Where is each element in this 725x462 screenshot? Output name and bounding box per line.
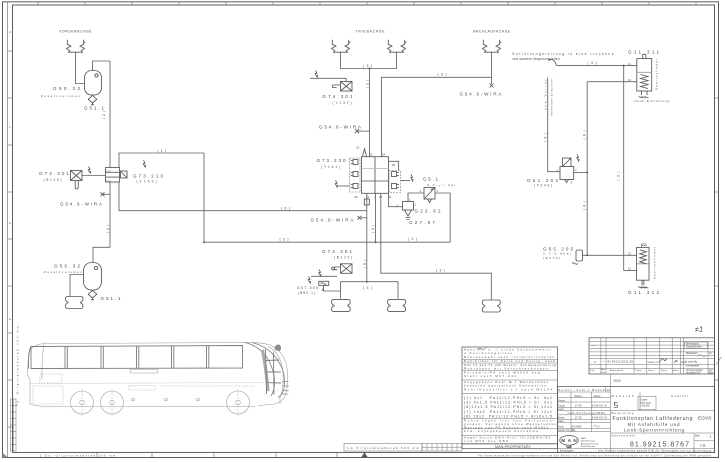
svg-text:Gewicht: Gewicht <box>671 394 688 398</box>
svg-text:≠1: ≠1 <box>695 324 704 334</box>
svg-text:Sperrzylinder: Sperrzylinder <box>653 247 657 279</box>
svg-text:mech.Entlüftung: mech.Entlüftung <box>634 99 669 103</box>
air bellows drive axle bottom right <box>388 300 406 312</box>
svg-text:1 B.: 1 B. <box>700 444 706 448</box>
lightning right of block <box>411 175 413 182</box>
vent stub under G74.301 <box>75 181 78 190</box>
svg-text:Nutzfahrzeuge: Nutzfahrzeuge <box>581 440 596 443</box>
svg-text:MAN-PROPRIETARY: MAN-PROPRIETARY <box>495 445 532 449</box>
solenoid lightning G74.301 left <box>88 167 90 174</box>
svg-text:—: — <box>602 360 605 364</box>
mirror <box>275 344 282 351</box>
svg-text:CAD-Zeichnung/AMWL: CAD-Zeichnung/AMWL <box>568 411 607 415</box>
svg-text:Urheberrechtlich: Urheberrechtlich <box>686 369 704 372</box>
svg-text:Sperrzylinder: Sperrzylinder <box>655 59 659 90</box>
svg-text:G54.6-WIRA: G54.6-WIRA <box>460 91 503 96</box>
svg-text:u.Zuordnungsliste: u.Zuordnungsliste <box>464 351 512 355</box>
bottom scale bar cells <box>422 443 462 451</box>
left zone ticks <box>8 51 13 427</box>
wire reservoir to main line <box>93 61 111 71</box>
wire port32 to G22.62 <box>389 193 403 206</box>
windshield A-pillar curve <box>244 342 285 397</box>
air bellows drive axle right <box>388 40 407 52</box>
svg-text:24: 24 <box>382 153 386 157</box>
svg-text:A3: A3 <box>607 388 611 392</box>
air bellows drive axle left <box>332 40 351 52</box>
svg-text:Blatt: Blatt <box>709 371 714 374</box>
test point G54.6-WIRA centre <box>361 217 367 219</box>
svg-text:17.05: 17.05 <box>575 416 582 420</box>
svg-text:bzw. angegebenem Ausnahme: bzw. angegebenem Ausnahme <box>464 429 538 433</box>
vent curl <box>549 58 557 66</box>
svg-text:81.99215.8767: 81.99215.8767 <box>630 441 689 448</box>
svg-text:beschützt DIN: beschützt DIN <box>686 371 701 374</box>
air bellows drive axle bottom left <box>332 300 351 312</box>
solenoid valve G61.202 <box>560 158 574 180</box>
supply line vom Vorrat <box>548 78 560 172</box>
axle centre marks <box>82 389 238 416</box>
bottom left corner arrow <box>3 453 9 458</box>
svg-text:Anz.: Anz. <box>601 368 606 371</box>
pipe (3) to port 11 G11.312 <box>624 270 637 272</box>
svg-text:Gesch.: Gesch. <box>558 399 566 402</box>
test point G54.6-WIRA trailing <box>491 77 493 84</box>
signature scribbles <box>661 358 668 361</box>
svg-text:MAN: MAN <box>581 437 586 440</box>
lock cylinder G11.312 <box>637 244 650 280</box>
svg-text:Fehl: Fehl <box>601 372 606 374</box>
handwritten squiggle over border <box>716 357 722 365</box>
svg-text:Werk München: Werk München <box>581 445 596 448</box>
switch body <box>576 250 583 261</box>
front door shaded band <box>263 350 269 391</box>
svg-text:12: 12 <box>628 251 632 255</box>
svg-text:Aktiengesellschaft: Aktiengesellschaft <box>581 442 599 445</box>
wire G5.1 port1 down to (3) <box>435 193 450 242</box>
svg-text:Zust.: Zust. <box>590 369 595 372</box>
(3) manifold horizontal <box>204 241 450 243</box>
svg-text:-----: ----- <box>592 344 596 347</box>
svg-text:n.M3226: n.M3226 <box>640 405 650 408</box>
svg-text:5: 5 <box>614 400 619 410</box>
left margin ruler <box>11 399 17 451</box>
spring G11.312 <box>640 250 647 264</box>
wire (6) vertical <box>586 82 588 256</box>
wire port2 to (6) <box>574 172 588 174</box>
coil 5 <box>392 184 400 189</box>
pipe (6) to port 12 <box>587 81 637 83</box>
bus front windshield and nose <box>258 345 288 406</box>
svg-text:25: 25 <box>392 163 396 167</box>
svg-text:Blattanzahl: Blattanzahl <box>686 352 698 355</box>
notes box <box>462 347 558 444</box>
svg-text:Änderungs-Nr.: Änderungs-Nr. <box>610 369 624 372</box>
wire bellows to reservoir <box>76 52 85 83</box>
MAN logo <box>560 436 579 446</box>
wire main vertical (2) upper <box>109 61 111 167</box>
skirt dashed line <box>30 383 283 384</box>
vent under G5.1 <box>428 199 432 203</box>
door hinges <box>282 382 289 395</box>
drain valve under reservoir <box>88 95 97 104</box>
wire G74.301 to G73.210 <box>82 175 106 177</box>
bus rear edge <box>42 344 44 380</box>
svg-text:31: 31 <box>356 146 360 150</box>
svg-text:Sachnummer: Sachnummer <box>612 434 636 438</box>
solenoid lightning G73.210 <box>143 161 145 168</box>
revision entry row <box>594 360 661 365</box>
pipe (3) to trailing axle <box>382 52 492 157</box>
svg-text:Vorgeschrieben: Vorgeschrieben <box>686 346 703 349</box>
svg-text:26: 26 <box>355 195 359 199</box>
lightning G74.301 centre <box>319 270 321 277</box>
reservoir G50.32 (front) <box>85 71 102 96</box>
pipe (3) to lock cylinder G11.311 <box>557 65 637 67</box>
svg-text:Zusatzvolumen: Zusatzvolumen <box>41 94 80 98</box>
wire (3) vertical right <box>623 66 625 271</box>
zone letters left <box>9 30 11 321</box>
revision header row <box>590 368 679 374</box>
stub under G11.312 <box>638 280 648 288</box>
vent port 3 G61.202 <box>565 180 569 183</box>
air bellows front axle bottom <box>66 297 84 309</box>
svg-text:G51.1: G51.1 <box>101 296 121 301</box>
svg-text:Datum: Datum <box>636 369 642 372</box>
coil 2 <box>351 172 359 177</box>
bus roof and body outline <box>28 344 256 407</box>
pressure switch G57.300 <box>308 277 310 284</box>
air bellows trailing axle <box>483 40 502 52</box>
svg-text:Tu. Originalmaßstab 100 mm: Tu. Originalmaßstab 100 mm <box>16 325 20 406</box>
svg-text:Mit Anfahrhilfe und: Mit Anfahrhilfe und <box>628 422 680 427</box>
svg-text:Anz.: Anz. <box>709 369 714 372</box>
svg-text:Name: Name <box>594 394 601 398</box>
svg-text:Berichtigung: Berichtigung <box>686 343 699 346</box>
svg-text:VORDERACHSE: VORDERACHSE <box>59 30 92 34</box>
svg-text:11: 11 <box>628 267 631 271</box>
svg-text:Gattrich: Gattrich <box>648 360 661 364</box>
wire port21 down <box>366 193 368 281</box>
vent G27.67 <box>405 210 412 220</box>
svg-text:Zeichn.-Aufb.n.M3226: Zeichn.-Aufb.n.M3226 <box>559 388 605 392</box>
svg-text:Erstausgabe: Erstausgabe <box>560 450 574 453</box>
svg-text:(7) 14x2 PA11/12-PHL5 = St 12: (7) 14x2 PA11/12-PHL5 = St 12x1 <box>464 410 552 414</box>
main title block frame <box>558 387 715 453</box>
svg-text:(B60.1): (B60.1) <box>298 291 315 295</box>
test point G54.6-WIRA drive axle <box>357 130 370 132</box>
valve G73.210 <box>106 168 128 183</box>
svg-text:Lugd.: Lugd. <box>558 408 564 411</box>
svg-text:11: 11 <box>628 62 631 66</box>
pipe G73.210 top (1) <box>119 153 204 168</box>
overflow valve G5.1 <box>424 188 435 200</box>
svg-text:EGVS: EGVS <box>698 416 712 422</box>
svg-text:17.05: 17.05 <box>575 404 582 408</box>
valve G74.301 left <box>71 171 83 181</box>
wire G22.62 to G5.1 <box>408 193 424 202</box>
notes text <box>464 348 556 392</box>
lock cylinder G11.311 <box>637 55 652 91</box>
MAN-PROPRIETARY strip <box>462 444 558 449</box>
wire vertical x204 <box>203 153 205 242</box>
svg-text:Entlüftungsleitung in eine tro: Entlüftungsleitung in eine trockene <box>513 52 614 56</box>
wheel front <box>227 391 250 414</box>
air bellows trailing axle bottom <box>482 300 500 312</box>
wheel rear 1 <box>71 391 94 414</box>
svg-text:1 Du. Originalmaßstab 100 mm: 1 Du. Originalmaßstab 100 mm <box>40 453 115 457</box>
svg-text:Datum: Datum <box>661 369 667 372</box>
front door frame <box>266 349 281 395</box>
svg-text:(6)12x1,5 PA11/12-PHL5 = St 12: (6)12x1,5 PA11/12-PHL5 = St 12x1 <box>464 405 552 409</box>
air bellows front axle top <box>67 40 86 52</box>
svg-text:12: 12 <box>628 78 632 82</box>
wires bellows to manifold <box>341 52 397 68</box>
svg-text:Zusatzvolumen: Zusatzvolumen <box>44 270 82 274</box>
wire reservoir to bellows lower <box>70 275 84 297</box>
left solenoid group dashed box <box>350 158 361 192</box>
luggage door dashes <box>33 374 254 404</box>
coil 3 <box>351 184 359 189</box>
coil 1 <box>351 160 359 165</box>
wheel rear 2 <box>101 391 124 414</box>
svg-text:KUBISCH: KUBISCH <box>592 404 607 408</box>
valve G22.62 <box>403 202 414 211</box>
port 25 stub <box>389 161 399 170</box>
test point G54.6-WIRA left <box>102 193 110 195</box>
reservoir G50.32 (lower) <box>84 263 102 291</box>
fuel filler marks <box>130 370 199 401</box>
svg-text:Gepr.: Gepr. <box>558 420 564 423</box>
svg-text:Norm: Norm <box>558 426 564 429</box>
svg-text:TRIEBACHSE: TRIEBACHSE <box>356 30 386 34</box>
svg-text:Benennung: Benennung <box>612 411 634 415</box>
border trim line left <box>7 2 9 458</box>
valve G74.301 (Y137) <box>310 78 346 81</box>
svg-text:NACHLAUFACHSE: NACHLAUFACHSE <box>473 30 511 34</box>
revision right column texts <box>685 343 714 375</box>
right zone ticks <box>715 98 719 380</box>
svg-text:(1) 6x1 PA11/12-PHL5 = St 6: (1) 6x1 PA11/12-PHL5 = St 6x1 <box>464 396 552 400</box>
bottom zone ticks <box>97 452 337 457</box>
svg-text:Für diese technische Unterlage: Für diese technische Unterlage behalten … <box>478 454 712 457</box>
vent under G11.311 <box>639 91 649 98</box>
svg-text:22 12: 22 12 <box>105 171 111 173</box>
port 31 symbol <box>363 149 367 157</box>
wire elbow to lower reservoir <box>93 247 110 262</box>
svg-text:MAN: MAN <box>561 438 577 444</box>
svg-text:1: 1 <box>710 435 712 439</box>
drive axle lower manifold <box>340 282 342 299</box>
junction drive axle <box>369 68 371 70</box>
restrictor on port21 line <box>364 199 369 205</box>
wire main vertical (2) lower <box>109 182 111 247</box>
pipe G73.210 bottom (6) <box>119 182 367 211</box>
drain valve under lower reservoir <box>88 290 97 299</box>
svg-text:KUBISCH: KUBISCH <box>592 416 607 420</box>
junction <box>623 65 625 67</box>
svg-text:22: 22 <box>370 153 374 157</box>
svg-text:(3) 9x1,5 PA11/12-PHL5 = St 9: (3) 9x1,5 PA11/12-PHL5 = St 9x1 <box>464 401 552 405</box>
svg-text:Ersatzteile: Ersatzteile <box>686 363 700 367</box>
valve block body <box>362 157 389 194</box>
svg-text:G54.6-WIRA: G54.6-WIRA <box>311 217 355 222</box>
actuator stub <box>335 267 341 270</box>
Zusatz box <box>638 396 656 409</box>
spring G11.311 <box>641 75 649 89</box>
top zone ticks <box>38 2 696 5</box>
right solenoid group dashed box <box>389 171 401 193</box>
svg-text:Name: Name <box>648 370 654 372</box>
svg-text:Alle Rechte vorbehalten gemäß: Alle Rechte vorbehalten gemäß DIN 34. We… <box>598 450 712 453</box>
revision table <box>589 338 715 374</box>
svg-text:G51.1: G51.1 <box>84 106 104 111</box>
svg-text:G54.6-WIRA: G54.6-WIRA <box>60 202 103 207</box>
wire port22 down <box>369 69 371 157</box>
svg-text:Datum: Datum <box>575 394 583 398</box>
svg-text:RG3: RG3 <box>614 379 621 383</box>
svg-text:Nebenverbraucher: Nebenverbraucher <box>550 78 554 115</box>
bottom scale bar label <box>344 443 422 451</box>
svg-text:22.MRZ: 22.MRZ <box>572 425 582 429</box>
coil 4 <box>392 172 400 177</box>
pipe (6) to port 12 G11.312 <box>583 254 637 256</box>
wire port4 down <box>375 193 377 242</box>
svg-text:Name: Name <box>673 370 679 372</box>
svg-text:Lenk-Sperreinrichtung: Lenk-Sperreinrichtung <box>624 427 684 432</box>
svg-text:G54.6-WIRA: G54.6-WIRA <box>319 125 362 130</box>
svg-text:81.65112.6011.05: 81.65112.6011.05 <box>608 360 634 364</box>
bottom centre trim arrow <box>361 452 368 457</box>
svg-text:Blatt: Blatt <box>695 434 700 437</box>
lightning left of block <box>335 181 337 188</box>
wire port28 down to trailing bellows <box>381 193 492 300</box>
svg-text:G5.1: G5.1 <box>423 176 438 181</box>
